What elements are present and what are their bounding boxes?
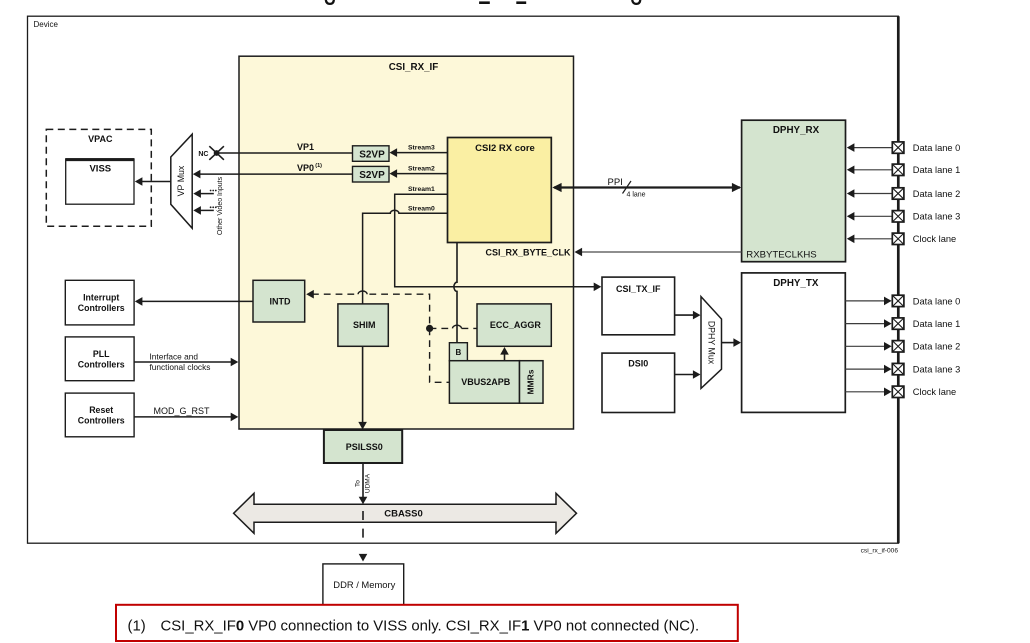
- other video input stub 1: [193, 189, 216, 198]
- wire stream1 to CSI_TX_IF: [395, 186, 602, 291]
- MMRs box: [520, 361, 544, 404]
- svg-text:(1): (1): [315, 163, 322, 169]
- DPHY_RX box: [742, 120, 846, 262]
- TX data lane 0 wire: [845, 297, 891, 306]
- svg-text:VP0: VP0: [297, 163, 314, 173]
- INTD box: [253, 280, 305, 322]
- svg-text:Stream1: Stream1: [408, 186, 435, 193]
- svg-text:PPI: PPI: [608, 177, 623, 188]
- svg-text:VP1: VP1: [297, 142, 314, 152]
- svg-text:DSI0: DSI0: [628, 359, 648, 369]
- svg-text:Interface and: Interface and: [150, 351, 199, 361]
- dashed wire to INTD: [306, 290, 449, 382]
- title underscore 2: [516, 1, 526, 4]
- RX pad data lane 2: [892, 188, 960, 199]
- svg-text:Clock lane: Clock lane: [913, 234, 956, 244]
- dashed branch to ECC_AGGR: [430, 325, 477, 328]
- wire stream0 to SHIM: [363, 205, 448, 303]
- TX pad data lane 0: [892, 295, 960, 306]
- svg-text:INTD: INTD: [270, 296, 291, 306]
- TX pad data lane 1: [892, 318, 960, 329]
- svg-text:DPHY_TX: DPHY_TX: [773, 278, 819, 289]
- wire DPHY Mux to DPHY_TX: [722, 338, 742, 347]
- footnote box: [116, 605, 738, 641]
- RX pad data lane 0: [892, 142, 960, 153]
- svg-text:ECC_AGGR: ECC_AGGR: [490, 320, 542, 330]
- DPHY_TX box: [742, 273, 846, 413]
- svg-text:CSI_TX_IF: CSI_TX_IF: [616, 284, 661, 294]
- TX data lane 3 wire: [845, 365, 891, 374]
- svg-text:Stream0: Stream0: [408, 205, 435, 212]
- svg-text:CBASS0: CBASS0: [384, 509, 423, 520]
- RX data lane 2 wire: [847, 189, 893, 198]
- title underscore 1: [479, 1, 490, 4]
- junction dot: [426, 325, 433, 332]
- svg-text:NC: NC: [198, 151, 208, 158]
- wire SHIM to PSILSS0: [358, 346, 367, 429]
- svg-text:CSI2 RX core: CSI2 RX core: [475, 143, 535, 154]
- CSI_TX_IF box: [602, 277, 675, 335]
- PSILSS0 box: [324, 430, 402, 463]
- svg-text:Data lane 3: Data lane 3: [913, 365, 961, 375]
- svg-text:S2VP: S2VP: [359, 170, 385, 181]
- svg-text:Device: Device: [34, 20, 59, 29]
- CSI2 RX core: [448, 138, 552, 243]
- svg-text:Stream2: Stream2: [408, 165, 435, 172]
- other video input stub 2: [193, 206, 216, 215]
- wire PLL clocks: [134, 351, 238, 372]
- CSI_RX_IF block: [239, 56, 574, 429]
- svg-text:PLL: PLL: [93, 349, 110, 359]
- wire PSILSS0 to CBASS0: [359, 463, 368, 504]
- svg-text:UDMA: UDMA: [364, 473, 371, 493]
- S2VP box 2: [353, 166, 390, 182]
- title descender g1: [326, 0, 334, 4]
- svg-text:B: B: [456, 348, 462, 357]
- TX data lane 2 wire: [845, 342, 891, 351]
- wire stream2: [390, 165, 448, 178]
- svg-text:Other Video Inputs: Other Video Inputs: [217, 176, 224, 235]
- svg-text:functional clocks: functional clocks: [150, 362, 211, 372]
- B box: [449, 343, 467, 361]
- svg-text:MMRs: MMRs: [525, 369, 535, 394]
- svg-text:Data lane 3: Data lane 3: [913, 212, 961, 222]
- PLL controllers box: [65, 337, 134, 381]
- NC termination: [198, 146, 224, 160]
- svg-text:DPHY Mux: DPHY Mux: [707, 321, 717, 365]
- RX pad data lane 3: [892, 211, 960, 222]
- RX data lane 1 wire: [847, 166, 893, 175]
- svg-text:csi_rx_if-006: csi_rx_if-006: [861, 548, 899, 555]
- svg-text:Data lane 1: Data lane 1: [913, 319, 961, 329]
- title descender g2: [632, 0, 640, 4]
- CBASS0 arrow: [234, 493, 577, 533]
- svg-text:Data lane 0: Data lane 0: [913, 143, 961, 153]
- svg-text:S2VP: S2VP: [359, 149, 385, 160]
- svg-text:RXBYTECLKHS: RXBYTECLKHS: [746, 249, 816, 260]
- device box: [28, 16, 899, 543]
- svg-text:(1): (1): [128, 619, 146, 635]
- wire DSI0 to DPHY Mux: [675, 370, 701, 379]
- wire CSI_RX_BYTE_CLK: [485, 247, 741, 257]
- wire VBUS2APB to ECC_AGGR: [500, 347, 509, 361]
- VP Mux: [171, 134, 192, 228]
- wire VP0 to VP Mux: [193, 163, 353, 178]
- interrupt controllers box: [65, 280, 134, 325]
- TX pad data lane 2: [892, 341, 960, 352]
- svg-text:DDR / Memory: DDR / Memory: [333, 579, 395, 590]
- svg-text:4 lane: 4 lane: [627, 192, 646, 199]
- svg-text:Data lane 1: Data lane 1: [913, 165, 961, 175]
- wire CSI_TX_IF to DPHY Mux: [675, 311, 701, 320]
- ECC_AGGR box: [477, 304, 551, 346]
- svg-text:Interrupt: Interrupt: [83, 292, 119, 302]
- DDR / Memory box: [323, 564, 404, 605]
- svg-text:CSI_RX_IF: CSI_RX_IF: [389, 62, 439, 73]
- VISS box: [66, 159, 134, 204]
- wire VP1 to NC: [219, 142, 353, 153]
- svg-text:Clock lane: Clock lane: [913, 387, 956, 397]
- svg-text:To: To: [354, 480, 361, 487]
- svg-text:SHIM: SHIM: [353, 320, 376, 330]
- svg-text:VISS: VISS: [89, 164, 111, 175]
- reset controllers box: [65, 393, 134, 437]
- VPAC dashed box: [46, 129, 151, 226]
- svg-text:Controllers: Controllers: [78, 360, 125, 370]
- svg-text:Stream3: Stream3: [408, 145, 435, 152]
- DPHY Mux: [701, 297, 722, 389]
- label To UDMA: [354, 473, 371, 493]
- S2VP box 1: [353, 146, 390, 162]
- svg-text:VP Mux: VP Mux: [176, 165, 186, 196]
- svg-text:Data lane 0: Data lane 0: [913, 296, 961, 306]
- svg-text:Data lane 2: Data lane 2: [913, 189, 961, 199]
- TX pad data lane 3: [892, 363, 960, 374]
- TX data lane 1 wire: [845, 319, 891, 328]
- svg-text:Reset: Reset: [89, 405, 113, 415]
- TX clock lane wire: [845, 388, 891, 397]
- svg-text:PSILSS0: PSILSS0: [346, 442, 383, 452]
- RX clock lane wire: [847, 235, 893, 244]
- svg-text:VBUS2APB: VBUS2APB: [461, 377, 511, 387]
- RX data lane 3 wire: [847, 212, 893, 221]
- RX pad clock lane: [892, 233, 956, 244]
- svg-text:VPAC: VPAC: [88, 134, 113, 144]
- wire stream3: [390, 145, 448, 157]
- wire MOD_G_RST: [134, 406, 238, 421]
- wire PPI bus: [552, 177, 741, 198]
- TX pad clock lane: [892, 386, 956, 397]
- svg-text:Controllers: Controllers: [78, 416, 125, 426]
- RX pad data lane 1: [892, 164, 960, 175]
- svg-text:DPHY_RX: DPHY_RX: [773, 125, 820, 136]
- SHIM box: [338, 304, 388, 346]
- wire VP Mux to VISS: [135, 177, 171, 186]
- svg-text:Controllers: Controllers: [78, 303, 125, 313]
- svg-text:CSI_RX_IF0 VP0 connection to V: CSI_RX_IF0 VP0 connection to VISS only. …: [161, 619, 700, 635]
- DSI0 box: [602, 353, 675, 412]
- RX data lane 0 wire: [847, 143, 893, 152]
- dashed wire CBASS0 to DDR: [359, 511, 368, 562]
- VBUS2APB box: [449, 361, 519, 404]
- svg-text:MOD_G_RST: MOD_G_RST: [154, 406, 211, 416]
- wire core to B: [454, 243, 457, 343]
- svg-text:Data lane 2: Data lane 2: [913, 342, 961, 352]
- wire INTD to interrupt controllers: [135, 297, 253, 306]
- svg-text:CSI_RX_BYTE_CLK: CSI_RX_BYTE_CLK: [485, 247, 571, 257]
